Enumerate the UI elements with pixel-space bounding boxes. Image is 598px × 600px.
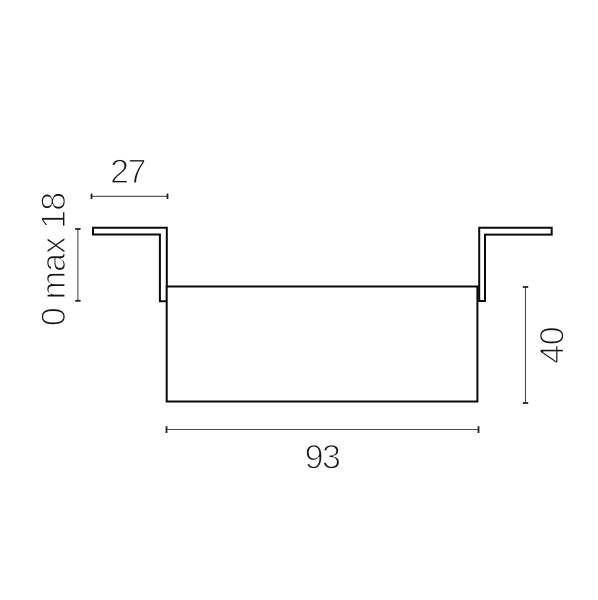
ticks for 27 bbox=[92, 194, 168, 199]
dimension line 27 bbox=[92, 195, 168, 197]
svg-text:0 max 18: 0 max 18 bbox=[35, 193, 73, 326]
ticks for 93 bbox=[167, 426, 479, 433]
svg-text:40: 40 bbox=[534, 327, 572, 364]
dimension line 40 bbox=[525, 287, 527, 403]
main body rectangle bbox=[167, 287, 478, 402]
left flange profile bbox=[93, 228, 167, 302]
ticks for 40 bbox=[523, 287, 528, 403]
svg-text:93: 93 bbox=[305, 439, 340, 477]
dimension line 93 bbox=[167, 429, 479, 431]
ticks for 0 max 18 bbox=[75, 229, 80, 301]
svg-text:27: 27 bbox=[110, 153, 145, 191]
right flange profile bbox=[479, 228, 552, 301]
dimension line 0 max 18 bbox=[77, 229, 79, 301]
